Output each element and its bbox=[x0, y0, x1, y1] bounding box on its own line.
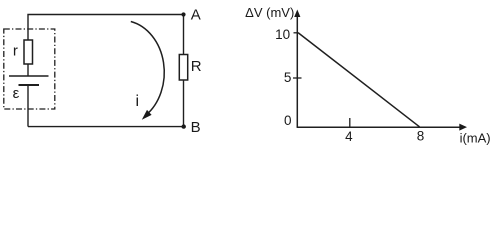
x-axis arrowhead bbox=[459, 124, 467, 131]
svg-text:10: 10 bbox=[275, 27, 290, 42]
svg-text:ε: ε bbox=[13, 85, 20, 102]
y-axis arrowhead bbox=[294, 10, 300, 18]
current arrowhead bbox=[142, 110, 152, 120]
wire top (from battery to node A) bbox=[28, 15, 184, 41]
svg-text:i(mA): i(mA) bbox=[460, 131, 491, 146]
svg-text:4: 4 bbox=[345, 129, 353, 144]
wire right (node A to resistor R) bbox=[183, 15, 185, 55]
battery short plate (negative) bbox=[19, 84, 40, 86]
wire bottom rail (to node B) bbox=[28, 126, 184, 128]
resistor R bbox=[179, 55, 187, 81]
svg-text:B: B bbox=[191, 119, 201, 136]
resistor r bbox=[24, 40, 33, 64]
svg-text:R: R bbox=[191, 58, 202, 75]
battery dashed enclosure box bbox=[4, 29, 55, 109]
wire (resistor r to battery plate) bbox=[27, 64, 29, 76]
node A bbox=[181, 12, 185, 16]
wire left-bottom (battery to bottom rail) bbox=[27, 85, 29, 127]
wire (resistor R to node B) bbox=[183, 80, 185, 127]
svg-text:r: r bbox=[13, 42, 18, 59]
svg-text:i: i bbox=[136, 93, 140, 110]
tick 4 bbox=[349, 118, 351, 128]
svg-text:A: A bbox=[191, 7, 201, 24]
battery long plate (positive) bbox=[9, 75, 49, 77]
graph y-axis bbox=[296, 14, 298, 128]
svg-text:5: 5 bbox=[284, 70, 292, 85]
svg-text:0: 0 bbox=[284, 113, 292, 128]
tick 5 bbox=[293, 77, 302, 79]
V-i characteristic line bbox=[298, 33, 420, 127]
tick 10 bbox=[294, 32, 299, 34]
svg-text:8: 8 bbox=[417, 129, 425, 144]
node B bbox=[182, 124, 186, 128]
svg-text:ΔV (mV): ΔV (mV) bbox=[245, 5, 294, 20]
current arrow arc i bbox=[131, 22, 164, 116]
graph x-axis bbox=[297, 126, 460, 128]
